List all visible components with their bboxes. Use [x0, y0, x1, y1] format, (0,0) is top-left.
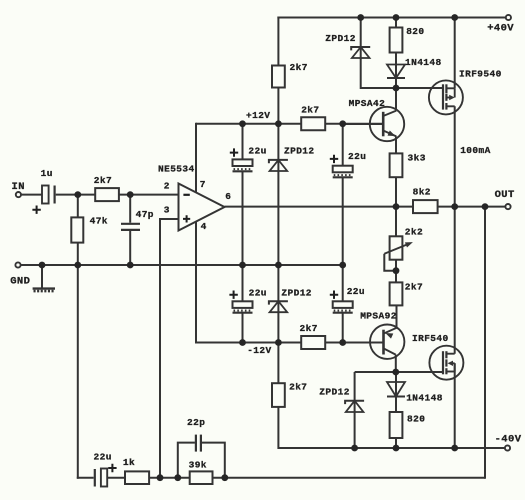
capacitor C5 1u (input): [42, 186, 49, 204]
junction dot 12: [482, 203, 489, 210]
wire ZPD12 to mid rail: [277, 160, 279, 302]
wire D1 to gate row: [395, 78, 397, 88]
wire trimmer to R6: [395, 260, 397, 283]
wire R11 to GND rail: [77, 243, 79, 265]
junction dot 20: [239, 339, 246, 346]
resistor R4 8k2: [413, 200, 438, 213]
plus C1: [230, 148, 238, 156]
zener diode ZPD12 (-12V): [269, 301, 288, 304]
junction dot 19: [339, 262, 346, 269]
svg-text:2k7: 2k7: [301, 105, 319, 116]
svg-text:1N4148: 1N4148: [405, 57, 442, 68]
wire top rail to R2: [395, 18, 397, 28]
svg-text:22u: 22u: [249, 287, 267, 298]
svg-text:ZPD12: ZPD12: [325, 33, 356, 44]
wire ZPD12 to -40V rail: [354, 412, 356, 448]
svg-text:47p: 47p: [136, 209, 154, 220]
svg-text:GND: GND: [10, 276, 30, 288]
wire -12V rail: [196, 342, 301, 344]
wire output row to Q4 drain: [454, 207, 456, 354]
wire op-amp pin3 stub: [159, 218, 179, 220]
resistor R11 47k: [71, 217, 83, 242]
svg-text:100mA: 100mA: [460, 145, 491, 156]
svg-text:820: 820: [406, 26, 424, 37]
svg-text:MPSA92: MPSA92: [360, 311, 397, 322]
wire ZPD12 to gate row: [360, 58, 362, 89]
wire C7 to R12: [107, 477, 125, 479]
wire feedback vertical: [159, 218, 161, 478]
wire +40V rail left drop: [277, 17, 279, 67]
wire R10 to -40V rail: [395, 438, 397, 448]
junction dot 28: [174, 474, 181, 481]
wire +40V rail to Q3 source: [454, 18, 456, 89]
svg-text:2k7: 2k7: [290, 62, 308, 73]
terminal -40V: [505, 445, 510, 450]
resistor R3 3k3: [390, 153, 403, 177]
svg-text:IRF540: IRF540: [412, 333, 449, 344]
wire Q2 collector to gate row: [395, 355, 397, 372]
junction dot 13: [393, 267, 400, 274]
junction dot 23: [392, 369, 399, 376]
svg-text:ZPD12: ZPD12: [281, 287, 312, 298]
trimmer P1 wiper: [384, 254, 396, 271]
wire +40V rail: [277, 17, 506, 19]
junction dot 5: [239, 120, 246, 127]
terminal IN: [16, 192, 21, 197]
svg-text:2k7: 2k7: [300, 323, 318, 334]
wire +12V rail: [196, 123, 301, 125]
ground symbol: [33, 287, 55, 289]
wire base row to C2: [342, 124, 344, 166]
svg-text:1u: 1u: [41, 168, 53, 179]
svg-text:IRF9540: IRF9540: [459, 68, 502, 79]
svg-text:MPSA42: MPSA42: [349, 98, 386, 109]
wire GND rail: [21, 264, 343, 266]
mosfet Q3 IRF9540: [429, 80, 463, 114]
transistor Q2 MPSA92: [370, 325, 404, 359]
wire +12V rail to C1: [242, 124, 244, 160]
junction dot 21: [275, 339, 282, 346]
svg-text:ZPD12: ZPD12: [284, 145, 315, 156]
capacitor C3 22u (-12V): [233, 301, 253, 308]
svg-text:6: 6: [225, 191, 231, 202]
junction dot 29: [221, 474, 228, 481]
junction dot 16: [127, 262, 134, 269]
wire gate row to ZPD12 (bottom): [354, 372, 356, 413]
terminal GND: [15, 262, 20, 267]
diode D1 1N4148 (top): [387, 65, 405, 79]
wire R3 to output row: [395, 177, 397, 207]
capacitor C1 22u (+12V): [233, 159, 253, 166]
wire base row to Q1: [343, 123, 384, 125]
svg-text:2k2: 2k2: [405, 226, 423, 237]
arrow Q1 emitter: [388, 130, 396, 136]
junction dot 4: [393, 85, 400, 92]
resistor R12 1k: [125, 471, 149, 484]
wire ground stem: [41, 265, 43, 288]
wire op-amp output: [225, 206, 414, 208]
svg-text:22u: 22u: [248, 145, 266, 156]
resistor R2 820 (top): [390, 28, 403, 53]
junction dot 24: [351, 445, 358, 452]
wire base row to Q2: [343, 342, 384, 344]
mosfet Q4 IRF540: [429, 346, 463, 380]
zener diode ZPD12 (bottom): [345, 401, 364, 404]
svg-text:22u: 22u: [347, 286, 365, 297]
wire gate row to D2: [395, 372, 397, 397]
junction dot 14: [39, 262, 46, 269]
wire D2 to R10: [395, 397, 397, 413]
resistor R7 2k7 (+12V row): [301, 117, 325, 130]
capacitor C2 22u (right top): [333, 166, 353, 173]
wire R13 to feedback riser: [213, 477, 486, 479]
resistor R1 2k7: [272, 66, 285, 88]
junction dot 10: [393, 203, 400, 210]
junction dot 11: [451, 203, 458, 210]
terminal +40V: [506, 15, 511, 20]
arrow Q3 substrate: [449, 95, 455, 100]
op-amp plus sign: [183, 215, 190, 222]
junction dot 17: [239, 262, 246, 269]
wire bottom left corner: [77, 477, 94, 479]
wire R6 to Q2 emitter: [396, 305, 398, 327]
wire op-amp pin4 supply: [195, 222, 197, 344]
wire C3 to -12V rail: [242, 313, 244, 343]
junction dot 9: [127, 191, 134, 198]
wire IRF540 gate row: [355, 371, 443, 373]
svg-text:IN: IN: [12, 181, 25, 193]
plus C4: [330, 291, 338, 299]
junction dot 3: [451, 14, 458, 21]
arrow Q2 emitter: [385, 333, 393, 339]
wire ZPD12 to -12V rail: [277, 301, 279, 343]
svg-text:820: 820: [407, 414, 425, 425]
svg-text:47k: 47k: [90, 215, 108, 226]
junction dot 15: [74, 262, 81, 269]
svg-text:7: 7: [200, 179, 206, 190]
junction dot 26: [451, 445, 458, 452]
wire op-amp pin7 supply: [195, 123, 197, 193]
wire input node to C6: [129, 195, 131, 223]
svg-text:+40V: +40V: [487, 23, 514, 35]
wire gate row to MPSA42 collector: [395, 88, 397, 111]
trimmer P1 2k2 body: [390, 236, 403, 259]
capacitor C6 47p: [121, 223, 140, 225]
svg-text:+12V: +12V: [246, 110, 270, 121]
resistor R8 2k7 (-12V row): [301, 336, 325, 349]
plus C5: [32, 206, 40, 214]
svg-text:-12V: -12V: [247, 345, 271, 356]
trimmer P1 arrow: [384, 244, 409, 254]
wire -40V left drop: [277, 343, 279, 385]
wire input node to R11: [77, 195, 79, 218]
wire mid rail to C4: [342, 265, 344, 301]
wire R12 to node: [149, 477, 190, 479]
junction dot 22: [339, 339, 346, 346]
plus C2: [330, 155, 338, 163]
terminal OUT: [505, 204, 510, 209]
wire C4 to -12V rail: [342, 313, 344, 343]
arrow Q4 substrate: [448, 361, 454, 366]
wire R2 to D1: [395, 53, 397, 79]
junction dot 25: [393, 445, 400, 452]
svg-text:2k7: 2k7: [289, 381, 307, 392]
wire output row to trimmer: [395, 207, 397, 237]
svg-text:39k: 39k: [189, 460, 207, 471]
svg-text:3: 3: [164, 205, 170, 216]
svg-text:1N4148: 1N4148: [406, 393, 443, 404]
junction dot 27: [157, 474, 164, 481]
wire -12V rail right: [325, 342, 383, 344]
svg-text:22u: 22u: [348, 151, 366, 162]
plus C3: [229, 291, 237, 299]
wire feedback riser: [484, 207, 486, 479]
junction dot 2: [393, 14, 400, 21]
resistor R12i 2k7 (input): [95, 188, 119, 201]
svg-text:2: 2: [164, 180, 170, 191]
wire mid rail to C3: [242, 265, 244, 301]
resistor R9 2k7 (bottom left): [272, 383, 285, 407]
wire GND node down: [77, 265, 79, 479]
plus C7: [108, 464, 116, 472]
wire C1 to mid rail: [242, 171, 244, 265]
junction dot 18: [275, 262, 282, 269]
wire C5 to R11 node: [56, 194, 95, 196]
wire Q4 source to -40V rail: [454, 363, 456, 448]
junction dot 6: [275, 120, 282, 127]
wire +12V rail right: [325, 123, 383, 125]
svg-text:1k: 1k: [123, 457, 135, 468]
diode D2 1N4148 (bottom): [387, 382, 405, 397]
svg-text:2k7: 2k7: [405, 281, 423, 292]
svg-text:NE5534: NE5534: [158, 163, 195, 174]
wire R9 to -40V corner: [278, 407, 505, 448]
wire C6 to GND rail: [129, 231, 131, 265]
wire 22p branch left: [178, 443, 195, 478]
wire IN to C5: [21, 194, 42, 196]
junction dot 8: [74, 191, 81, 198]
svg-text:OUT: OUT: [495, 189, 515, 201]
wire top rail to ZPD12: [360, 18, 362, 60]
svg-text:3k3: 3k3: [408, 153, 426, 164]
wire C2 to mid rail: [342, 177, 344, 265]
svg-text:-40V: -40V: [495, 434, 522, 446]
svg-text:4: 4: [201, 221, 207, 232]
op-amp minus sign: [183, 194, 189, 196]
junction dot 1: [357, 14, 364, 21]
wire 22p branch right: [202, 443, 225, 478]
wire 2k7 to op-amp pin2: [119, 194, 179, 196]
capacitor C7 22u (feedback): [94, 469, 96, 487]
zener diode ZPD12 (+12V): [269, 160, 288, 163]
op-amp U1 NE5534: [179, 184, 225, 231]
junction dot 7: [339, 120, 346, 127]
resistor R13 39k: [190, 471, 213, 484]
svg-text:8k2: 8k2: [413, 186, 431, 197]
wire IRF9540 gate row: [361, 87, 443, 89]
svg-text:22u: 22u: [94, 451, 112, 462]
wire 8k2 to OUT terminal: [438, 206, 506, 208]
wire Q1 emitter to R3: [395, 136, 397, 153]
capacitor C8 22p: [195, 435, 197, 452]
resistor R10 820 (bottom): [390, 412, 403, 438]
transistor Q1 MPSA42: [370, 107, 404, 141]
resistor R6 2k7 (below trimmer): [390, 282, 403, 305]
svg-text:22p: 22p: [187, 417, 205, 428]
zener diode ZPD12 (top): [351, 47, 370, 50]
wire R1 to +12V rail: [277, 88, 279, 162]
svg-text:ZPD12: ZPD12: [319, 386, 350, 397]
capacitor C4 22u (right bottom): [333, 301, 353, 308]
svg-text:2k7: 2k7: [94, 175, 112, 186]
wire Q3 drain to output row: [454, 106, 456, 206]
